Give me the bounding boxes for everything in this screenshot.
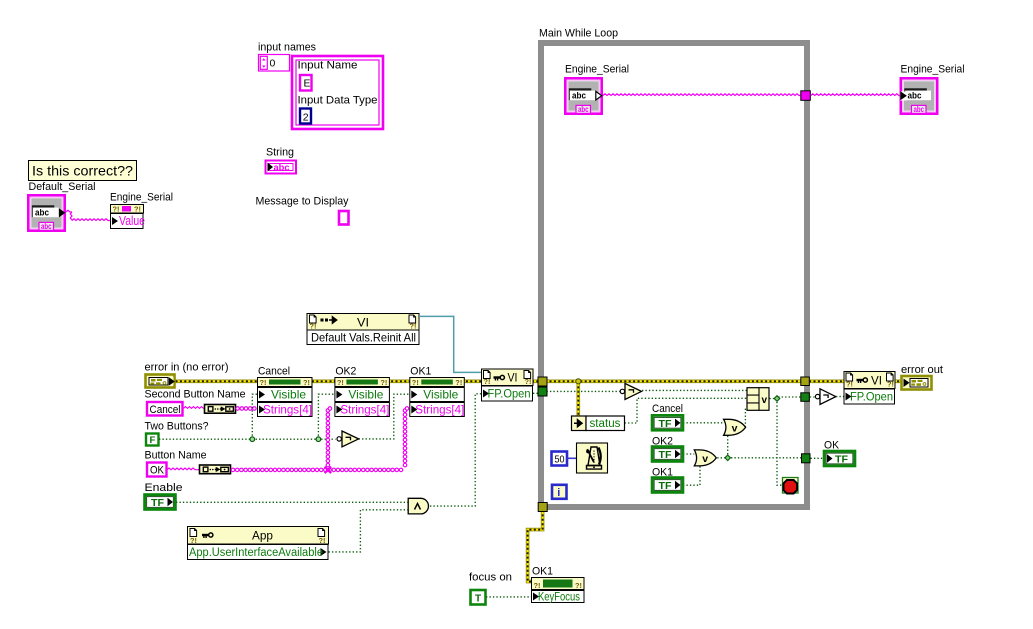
wire boolean App node to AND gate <box>329 510 408 552</box>
wire error loop bottom to KeyFocus <box>528 510 543 582</box>
node trim whitespace 1 <box>205 405 236 414</box>
property node OK2 Visible/Strings <box>335 378 390 387</box>
svg-text:T: T <box>475 593 481 604</box>
property node Cancel Visible/Strings <box>258 378 313 387</box>
svg-text:Value: Value <box>119 214 145 228</box>
svg-text:Engine_Serial: Engine_Serial <box>901 63 965 75</box>
svg-text:TF: TF <box>835 455 848 466</box>
cluster constant frame <box>292 56 383 129</box>
tunnel error left <box>538 377 547 386</box>
svg-text:2: 2 <box>303 112 309 124</box>
svg-text:App.UserInterfaceAvailable: App.UserInterfaceAvailable <box>189 547 323 559</box>
string indicator icon <box>266 161 297 174</box>
wire string array up to OK1 Strings[4] <box>403 409 407 467</box>
svg-text:?!: ?! <box>455 378 462 387</box>
wire boolean AND output to FP.Open input <box>430 394 481 506</box>
svg-text:abc: abc <box>572 91 586 102</box>
svg-text:Strings[4]: Strings[4] <box>415 403 464 417</box>
svg-text:?!: ?! <box>113 205 120 214</box>
svg-text:abc: abc <box>35 208 49 219</box>
string constant Cancel <box>147 402 183 416</box>
wire string Engine_Serial to tunnel <box>603 94 800 96</box>
wire numeric 50 to wait <box>568 457 577 459</box>
svg-text:Visible: Visible <box>423 388 458 402</box>
svg-text:Input Name: Input Name <box>298 60 358 72</box>
svg-text:input names: input names <box>258 42 316 54</box>
wire boolean up to Cancel Visible <box>252 394 257 439</box>
string control Default_Serial <box>28 195 64 230</box>
wire boolean NOT to compound input 1 <box>642 389 747 391</box>
wire VI refnum (teal) <box>419 316 481 372</box>
string constant Message to Display (empty) <box>339 211 349 225</box>
svg-text:Input Data Type: Input Data Type <box>298 95 378 107</box>
svg-text:?!: ?! <box>525 377 532 386</box>
wire boolean up to OK2 Visible <box>318 394 334 439</box>
svg-text:Message to Display: Message to Display <box>256 196 349 208</box>
svg-text:VI: VI <box>871 376 882 388</box>
wire boolean OR2 output to junction and OK tunnel <box>717 457 801 459</box>
numeric constant 2 <box>300 109 311 124</box>
svg-text:Cancel: Cancel <box>258 366 290 378</box>
boolean constant F <box>146 434 159 446</box>
svg-text:v: v <box>762 395 768 406</box>
tunnel string Engine_Serial right <box>801 91 811 101</box>
svg-text:Visible: Visible <box>348 388 383 402</box>
svg-text:?!: ?! <box>190 536 197 545</box>
svg-text:error in (no error): error in (no error) <box>145 362 229 374</box>
svg-text:?!: ?! <box>260 378 267 387</box>
junction string array X <box>325 467 331 473</box>
node compound arithmetic OR <box>747 388 769 411</box>
svg-text:?!: ?! <box>303 378 310 387</box>
property node OK1 KeyFocus <box>532 578 585 590</box>
free label Is this correct?? <box>29 161 137 181</box>
boolean constant T <box>471 590 486 605</box>
string indicator Engine_Serial (right) <box>901 78 937 113</box>
boolean terminal OK1 TF <box>652 478 683 493</box>
svg-text:TF: TF <box>659 481 672 492</box>
svg-text:?!: ?! <box>410 322 417 331</box>
svg-text:VI: VI <box>357 316 369 330</box>
svg-text:?!: ?! <box>337 378 344 387</box>
svg-text:Two Buttons?: Two Buttons? <box>145 420 209 432</box>
svg-text:?!: ?! <box>380 378 387 387</box>
svg-text:?!: ?! <box>887 380 894 389</box>
wire string tunnel to indicator <box>811 94 900 96</box>
svg-text:TF: TF <box>151 498 164 509</box>
wire string array trim2 run <box>231 468 403 472</box>
error in cluster terminal <box>146 375 175 388</box>
wire boolean T to KeyFocus <box>486 596 531 598</box>
error out cluster indicator <box>902 376 932 390</box>
svg-text:50: 50 <box>555 454 565 466</box>
svg-text:Strings[4]: Strings[4] <box>263 403 312 417</box>
gate OR1 (Cancel or others) <box>724 419 746 435</box>
tunnel boolean left (FP.Open) <box>538 387 547 396</box>
svg-text:error out: error out <box>901 364 943 376</box>
numeric constant 50 <box>552 452 568 466</box>
property node VI FP.Open (right) <box>844 372 895 389</box>
svg-text:OK1: OK1 <box>410 366 431 378</box>
gate AND <box>408 498 428 514</box>
wire Default_Serial to Value (string zigzag) <box>66 210 72 212</box>
node wait ms (metronome) <box>577 443 608 473</box>
svg-text:Cancel: Cancel <box>150 404 181 416</box>
svg-text:abc: abc <box>908 91 922 102</box>
tunnel boolean right (to NOT) <box>801 393 810 402</box>
wire boolean compound output to right tunnel <box>769 397 800 399</box>
svg-text:i: i <box>557 487 560 499</box>
svg-text:?!: ?! <box>575 581 582 590</box>
wire Cancel constant to trim node <box>184 407 205 409</box>
wire error branch to status node <box>576 382 580 416</box>
wire error main run <box>176 379 902 383</box>
svg-text:Enable: Enable <box>145 482 183 494</box>
string constant OK <box>147 463 167 477</box>
svg-text:OK1: OK1 <box>532 566 553 578</box>
svg-text:OK2: OK2 <box>335 366 356 378</box>
svg-text:Engine_Serial: Engine_Serial <box>565 63 629 75</box>
wire boolean junction down to stop terminal <box>777 399 782 486</box>
wire string array trim1 to Cancel Strings[4] <box>236 407 256 411</box>
svg-text:?!: ?! <box>534 581 541 590</box>
gate NOT2 (in loop) <box>620 389 624 393</box>
wire boolean OK2 TF to OR2 <box>683 453 694 455</box>
svg-text:Engine_Serial: Engine_Serial <box>110 192 173 204</box>
node unbundle status <box>572 416 587 431</box>
svg-text:Button Name: Button Name <box>145 449 207 461</box>
wire boolean F to NOT1 <box>159 438 336 440</box>
tunnel error bottom <box>538 503 547 512</box>
svg-text:VI: VI <box>508 373 518 385</box>
string constant E <box>300 75 312 91</box>
svg-text:Default Vals.Reinit All: Default Vals.Reinit All <box>311 331 416 345</box>
svg-text:KeyFocus: KeyFocus <box>538 592 580 604</box>
stop terminal <box>783 478 799 494</box>
wire OK constant to trim node 2 <box>167 468 199 470</box>
tunnel error right <box>801 377 810 386</box>
property node VI FP.Open (left) <box>482 369 534 386</box>
wire string array up to OK2 Strings[4] <box>326 409 330 467</box>
junction error wire <box>576 379 581 384</box>
array index box <box>259 55 290 72</box>
junction Two Buttons at Cancel branch <box>250 437 255 442</box>
node trim whitespace 2 <box>200 465 231 474</box>
svg-text:FP.Open: FP.Open <box>488 387 531 401</box>
wire boolean right tunnel to NOT3 <box>810 396 815 398</box>
wire boolean OK tunnel to indicator <box>811 457 824 459</box>
svg-text:abc: abc <box>274 163 290 173</box>
junction Two Buttons at OK2 branch <box>316 437 321 442</box>
svg-text:OK: OK <box>150 465 165 477</box>
svg-text:?!: ?! <box>412 378 419 387</box>
property node OK1 Visible/Strings <box>410 378 465 387</box>
svg-text:abc: abc <box>578 104 589 114</box>
svg-text:v: v <box>702 453 708 465</box>
gate NOT1 <box>337 437 341 441</box>
while loop border <box>541 43 807 507</box>
gate NOT3 <box>815 394 819 398</box>
svg-text:Strings[4]: Strings[4] <box>340 403 389 417</box>
wire boolean NOT1 to OK1 Visible <box>359 394 410 439</box>
svg-text:status: status <box>590 418 621 430</box>
string control Engine_Serial (loop) <box>565 78 601 113</box>
svg-text:Cancel: Cancel <box>652 403 683 415</box>
svg-text:E: E <box>304 78 311 90</box>
wire boolean left tunnel to NOT gate <box>547 390 620 392</box>
gate OR2 (OK2 or OK1) <box>694 450 716 466</box>
svg-text:Second Button Name: Second Button Name <box>145 388 246 400</box>
wire boolean status to compound input 2 <box>625 398 747 423</box>
property node Engine_Serial Value <box>111 205 144 214</box>
wire boolean Enable to AND gate <box>176 501 408 503</box>
svg-text:TF: TF <box>659 419 672 430</box>
svg-text:OK: OK <box>824 439 840 451</box>
junction diamond OR2 output <box>725 455 731 461</box>
boolean terminal Cancel TF <box>652 415 683 430</box>
svg-text:focus on: focus on <box>469 572 512 584</box>
svg-text:App: App <box>252 529 273 543</box>
svg-text:?!: ?! <box>134 205 141 214</box>
tunnel boolean right (OK) <box>802 454 811 463</box>
svg-text:v: v <box>732 423 738 435</box>
property node App.UserInterfaceAvailable <box>188 527 329 545</box>
svg-text:abc: abc <box>914 104 925 114</box>
svg-text:?!: ?! <box>310 322 317 331</box>
svg-text:F: F <box>150 435 156 446</box>
wire boolean OK1 TF to OR2 lower input <box>683 464 700 486</box>
svg-text:Main While Loop: Main While Loop <box>539 28 618 40</box>
svg-text:abc: abc <box>41 221 52 231</box>
invoke node VI Default Vals.Reinit All <box>307 314 419 331</box>
wire boolean OR1 output to compound input 3 <box>744 407 746 427</box>
iteration terminal i <box>552 485 567 499</box>
svg-text:0: 0 <box>270 58 276 70</box>
junction diamond compound output <box>774 396 780 402</box>
boolean terminal OK2 TF <box>652 447 683 462</box>
svg-text:FP.Open: FP.Open <box>850 390 893 404</box>
svg-text:?!: ?! <box>846 380 853 389</box>
svg-text:Default_Serial: Default_Serial <box>29 181 96 193</box>
svg-text:String: String <box>266 147 294 159</box>
svg-text:?!: ?! <box>484 377 491 386</box>
wire boolean NOT3 to FP.Open 2 <box>836 396 844 398</box>
wire boolean junction up to OR1 input 2 <box>727 435 729 458</box>
svg-text:Is this correct??: Is this correct?? <box>32 163 133 179</box>
boolean control Enable TF <box>145 495 176 510</box>
wire boolean Cancel TF to OR1 <box>683 422 724 424</box>
svg-text:Visible: Visible <box>271 388 306 402</box>
wire boolean FP.Open row into loop <box>533 392 541 394</box>
boolean indicator OK TF <box>824 451 855 466</box>
svg-text:?!: ?! <box>319 536 326 545</box>
svg-text:TF: TF <box>659 450 672 461</box>
